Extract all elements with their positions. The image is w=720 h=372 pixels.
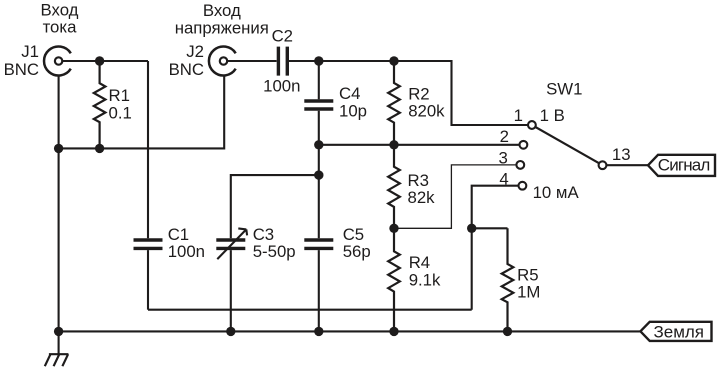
node: ground at R5 xyxy=(503,327,512,336)
blade from contact 1 to contact 13 xyxy=(532,125,603,165)
label title: Вход тока xyxy=(41,1,79,37)
tag Земля xyxy=(640,322,711,342)
svg-text:10 мА: 10 мА xyxy=(533,183,580,202)
ground symbol (chassis) xyxy=(45,331,69,366)
svg-text:J2: J2 xyxy=(186,42,204,61)
svg-text:56p: 56p xyxy=(343,242,371,261)
node: R3 bottom / R4 top xyxy=(389,224,398,233)
wire J2 body rail (y=148.4) to J1 column xyxy=(59,75,225,148)
svg-text:0.1: 0.1 xyxy=(109,103,132,122)
capacitor C4 xyxy=(304,84,367,120)
contact 4 xyxy=(519,182,527,190)
capacitor C5 xyxy=(304,225,370,261)
svg-text:J1: J1 xyxy=(21,42,39,61)
node: J1 column y148 xyxy=(54,144,63,153)
capacitor C1 xyxy=(134,225,206,261)
svg-text:820k: 820k xyxy=(408,101,445,120)
wire node 175 to C3 top xyxy=(231,175,319,238)
resistor R4 xyxy=(388,228,441,331)
node: C4 bottom rail xyxy=(314,140,323,149)
svg-text:1M: 1M xyxy=(517,283,540,302)
wire switch contact 4 to corner column xyxy=(472,186,519,310)
svg-text:1: 1 xyxy=(514,106,523,125)
svg-text:3: 3 xyxy=(498,148,507,167)
svg-text:2: 2 xyxy=(500,127,509,146)
connector J1 BNC xyxy=(4,42,71,79)
svg-text:BNC: BNC xyxy=(4,60,39,79)
switch SW1 xyxy=(498,79,630,202)
wire R5 feed from contact-4 column xyxy=(472,227,508,229)
wire middle rail to switch contact 2 xyxy=(319,144,520,146)
label title: Вход напряжения xyxy=(175,1,269,38)
wire C5 bottom to ground rail xyxy=(318,250,320,331)
svg-text:тока: тока xyxy=(43,18,78,37)
svg-text:1 В: 1 В xyxy=(540,106,565,125)
svg-text:9.1k: 9.1k xyxy=(409,271,441,290)
contact 2 xyxy=(520,141,528,149)
node: R1 bottom xyxy=(95,144,104,153)
svg-text:напряжения: напряжения xyxy=(175,19,269,38)
contact 3 xyxy=(516,161,524,169)
node: C2 / C4 top rail xyxy=(314,56,323,65)
wire thin: R3 bottom node to switch contact 3 xyxy=(394,165,516,228)
wire J1 body down to ground rail xyxy=(58,75,60,331)
wire J2 pin to C2 left plate xyxy=(227,60,276,62)
contact 13 xyxy=(599,161,607,169)
wire J1 pin to C1 column top xyxy=(62,60,148,62)
svg-text:SW1: SW1 xyxy=(546,79,582,98)
node: R2 top xyxy=(389,56,398,65)
svg-text:100n: 100n xyxy=(168,242,205,261)
svg-text:5-50p: 5-50p xyxy=(253,242,296,261)
svg-text:C2: C2 xyxy=(272,26,293,45)
wire C4 top stub xyxy=(318,61,320,99)
svg-text:100n: 100n xyxy=(263,77,300,96)
node: contact-4 column / R5 xyxy=(467,224,476,233)
svg-text:Вход: Вход xyxy=(203,1,241,20)
wire ground rail xyxy=(59,330,641,332)
node: C3 link xyxy=(314,170,323,179)
wire C2 right plate along top rail, corner down to switch contact 1 xyxy=(289,61,528,125)
wire switch pin 13 to signal tag xyxy=(606,164,647,166)
node: J1 pin / R1 top xyxy=(95,56,104,65)
C3 variable arrow xyxy=(217,229,246,259)
tag Сигнал xyxy=(648,155,715,176)
node: R2 bottom / R3 top xyxy=(389,140,398,149)
wire C3 bottom to ground rail xyxy=(230,250,232,331)
contact 1 xyxy=(528,121,536,129)
svg-text:R4: R4 xyxy=(409,253,430,272)
svg-text:Земля: Земля xyxy=(654,323,705,342)
svg-text:BNC: BNC xyxy=(169,60,204,79)
svg-text:82k: 82k xyxy=(408,188,436,207)
svg-text:4: 4 xyxy=(499,170,508,189)
svg-text:C4: C4 xyxy=(339,84,360,103)
node: ground at C5 xyxy=(314,327,323,336)
wire C4 bottom to node row 175 and C5 top xyxy=(318,111,320,239)
resistor R3 xyxy=(388,145,435,229)
svg-text:Сигнал: Сигнал xyxy=(658,155,711,174)
resistor R2 xyxy=(388,61,445,145)
svg-text:13: 13 xyxy=(612,145,631,164)
wire bottom link rail y=309.7 xyxy=(148,309,472,311)
resistor R5 xyxy=(502,228,541,331)
node: ground at R4 xyxy=(389,327,398,336)
node: ground at J1 xyxy=(54,327,63,336)
capacitor C2 xyxy=(263,26,300,95)
capacitor C3 (variable) xyxy=(216,225,295,261)
node: ground at C3 xyxy=(226,327,235,336)
svg-text:10p: 10p xyxy=(339,102,367,121)
connector J2 BNC xyxy=(169,42,236,79)
resistor R1 xyxy=(94,61,132,148)
wire C1 bottom to y=309.7 rail xyxy=(147,250,149,310)
wire C1 column (top rail down to C1) xyxy=(147,61,149,238)
svg-text:R1: R1 xyxy=(109,86,130,105)
